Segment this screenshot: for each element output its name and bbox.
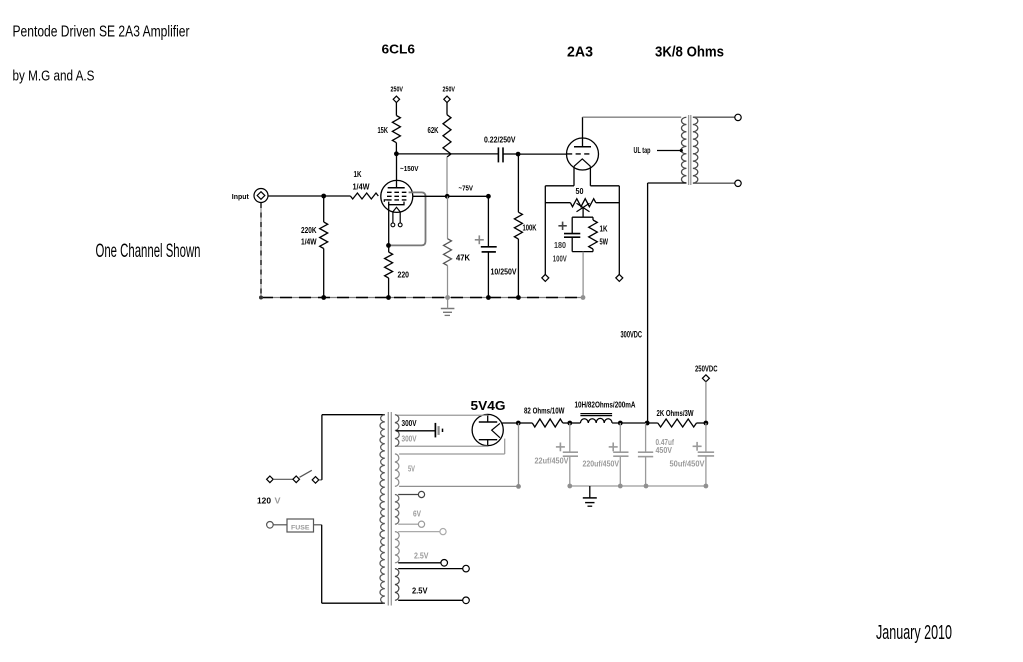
svg-text:10/250V: 10/250V xyxy=(491,267,517,277)
resistor 1K 1/4W grid stopper xyxy=(350,193,378,199)
node rail at bypass cap xyxy=(486,295,491,300)
resistor 62K screen dropper xyxy=(446,103,448,115)
node plate of 6CL6 xyxy=(394,151,399,156)
node bus 0.47uf xyxy=(644,484,649,489)
6CL6 grid g1 xyxy=(387,199,409,201)
svg-text:1/4W: 1/4W xyxy=(301,237,317,247)
capacitor 22uf/450V xyxy=(569,423,571,452)
polarity plus of 180 xyxy=(558,225,566,227)
node screen grid xyxy=(445,194,450,199)
resistor 1K 5W bias xyxy=(589,220,598,249)
wire secondary top lead xyxy=(693,116,735,118)
polarity plus of 50uf xyxy=(693,445,702,447)
node B+ takeoff xyxy=(645,421,650,426)
capacitor 180/100V bypass xyxy=(571,217,573,233)
wire 5V winding to filament xyxy=(399,453,505,455)
node coupling cap output xyxy=(516,152,521,157)
svg-text:100V: 100V xyxy=(553,253,567,263)
svg-text:Input: Input xyxy=(232,192,249,201)
node grid top of 220K xyxy=(321,194,326,199)
svg-text:5V4G: 5V4G xyxy=(471,398,506,413)
svg-text:6CL6: 6CL6 xyxy=(382,41,416,56)
svg-text:V: V xyxy=(275,496,281,506)
svg-text:220K: 220K xyxy=(301,225,317,235)
terminal 250VDC output xyxy=(702,375,709,382)
node rail at 47K xyxy=(445,295,450,300)
polarity plus of 22uf xyxy=(556,446,565,448)
node rectifier output xyxy=(516,421,521,426)
node rail at 220K xyxy=(321,295,326,300)
T2 core xyxy=(688,115,690,185)
wire plate node to coupling cap xyxy=(396,153,498,155)
node bus 220uf xyxy=(618,484,623,489)
capacitor 50uf/450V xyxy=(705,423,707,452)
2.5V-1 bottom lead xyxy=(398,562,441,564)
fuse F1 xyxy=(267,522,274,529)
6CL6 heater filament xyxy=(393,207,401,212)
svg-text:47K: 47K xyxy=(456,253,471,263)
svg-text:5W: 5W xyxy=(600,237,609,247)
terminal filament supply left xyxy=(542,274,549,281)
wire mains neutral to primary bottom xyxy=(321,525,323,603)
HV center tap ground xyxy=(396,430,435,432)
2A3 grid xyxy=(567,153,591,155)
wire rectifier output xyxy=(501,422,518,424)
resistor 220 cathode xyxy=(385,252,393,278)
wire cathode drop xyxy=(388,205,390,252)
svg-text:0.22/250V: 0.22/250V xyxy=(484,135,516,145)
6CL6 heater pin 2 xyxy=(398,223,402,227)
T1 2.5V winding 2 xyxy=(395,569,399,601)
5V4G filament xyxy=(492,423,500,437)
6V bottom lead xyxy=(398,523,418,525)
6CL6 heater pin 1 xyxy=(391,223,395,227)
svg-text:One Channel Shown: One Channel Shown xyxy=(96,240,201,262)
node 250VDC output xyxy=(704,421,709,426)
2.5V-2 top lead xyxy=(398,568,463,570)
input jack J1 xyxy=(254,189,268,203)
ground symbol amplifier xyxy=(441,308,455,310)
wire to 2A3 grid xyxy=(518,153,567,155)
svg-text:2K Ohms/3W: 2K Ohms/3W xyxy=(657,408,695,418)
6CL6 grid g2 xyxy=(387,195,409,197)
svg-text:250VDC: 250VDC xyxy=(695,363,718,373)
T1 2.5V winding 1 xyxy=(395,532,399,563)
svg-text:300VDC: 300VDC xyxy=(621,330,643,341)
node bus 22uf xyxy=(567,484,572,489)
2A3 plate xyxy=(582,117,584,147)
svg-text:22uf/450V: 22uf/450V xyxy=(535,456,569,466)
capacitor 220uf/450V xyxy=(619,423,621,452)
resistor 100K grid leak xyxy=(517,154,519,212)
wire filament to hum pot right xyxy=(590,185,619,187)
svg-text:Pentode Driven SE 2A3 Amplifie: Pentode Driven SE 2A3 Amplifier xyxy=(13,24,190,41)
UL tap wire xyxy=(657,150,682,152)
svg-text:250V: 250V xyxy=(443,85,456,94)
svg-text:2.5V: 2.5V xyxy=(412,586,428,596)
node rail at input xyxy=(259,296,263,300)
wire B+ return to 5V winding xyxy=(518,423,520,486)
svg-text:1K: 1K xyxy=(600,224,609,234)
6CL6 cathode xyxy=(389,202,404,205)
2.5V-2 bottom lead xyxy=(398,599,463,601)
svg-text:1/4W: 1/4W xyxy=(353,182,371,192)
svg-text:220: 220 xyxy=(398,270,410,280)
resistor 82 Ohms/10W xyxy=(518,422,532,424)
terminal filament supply right xyxy=(616,274,623,281)
svg-text:450V: 450V xyxy=(656,445,673,455)
svg-text:by M.G and A.S: by M.G and A.S xyxy=(13,69,95,85)
wire 250VDC to filter output xyxy=(705,382,707,423)
wire secondary bottom lead xyxy=(693,182,735,184)
svg-text:6V: 6V xyxy=(413,508,421,518)
svg-text:220uf/450V: 220uf/450V xyxy=(583,459,620,469)
node rail at 100K xyxy=(516,295,521,300)
ground rail of amplifier stage xyxy=(261,297,583,299)
wire 2A3 plate to OPT primary xyxy=(583,116,682,118)
node screen bypass top xyxy=(486,194,491,199)
5V4G top plate xyxy=(487,414,489,422)
svg-text:50: 50 xyxy=(576,186,584,196)
resistor 15K plate load xyxy=(395,103,397,116)
terminal 250V plate supply xyxy=(393,96,399,102)
svg-text:5V: 5V xyxy=(408,463,415,473)
svg-text:50uf/450V: 50uf/450V xyxy=(670,459,705,469)
choke 10H/82Ohms/200mA xyxy=(580,418,612,423)
terminal 250V screen supply xyxy=(444,96,450,102)
5V4G bottom plate xyxy=(479,439,497,441)
terminal speaker plus xyxy=(735,114,741,120)
polarity plus of 10/250V xyxy=(475,239,484,241)
wire cathode network to ground rail xyxy=(582,252,584,297)
svg-text:100K: 100K xyxy=(523,223,538,233)
svg-text:62K: 62K xyxy=(428,125,440,135)
tube 2A3 V2 envelope xyxy=(567,138,599,170)
terminal speaker minus xyxy=(735,180,741,186)
svg-text:UL tap: UL tap xyxy=(634,145,651,155)
potentiometer 50 hum balance xyxy=(545,202,570,204)
capacitor 0.22/250V coupling xyxy=(497,147,499,162)
svg-text:1K: 1K xyxy=(354,169,363,179)
wire input to grid resistor xyxy=(268,195,350,197)
node 5V winding return xyxy=(516,484,521,489)
svg-text:82 Ohms/10W: 82 Ohms/10W xyxy=(524,406,565,416)
wire input shield drop xyxy=(260,203,262,298)
wire node to choke xyxy=(570,422,581,424)
wire filament to hum pot left xyxy=(545,185,574,187)
svg-text:15K: 15K xyxy=(378,125,389,135)
T1 6V winding xyxy=(395,495,399,525)
resistor 2K Ohms/3W xyxy=(658,419,697,427)
transformer T1 primary winding xyxy=(380,415,385,604)
node rail at 220 xyxy=(386,295,391,300)
node cathode junction xyxy=(386,243,391,248)
svg-text:120: 120 xyxy=(257,496,271,506)
polarity plus of 220uf xyxy=(609,446,618,448)
switch SW1 mains xyxy=(267,476,274,483)
resistor 220K 1/4W xyxy=(323,196,325,222)
svg-text:250V: 250V xyxy=(391,85,404,94)
svg-text:2A3: 2A3 xyxy=(567,44,593,60)
tube 6CL6 V1 envelope xyxy=(381,180,413,212)
wire mains hot to primary top xyxy=(321,415,323,480)
wire HV top to rectifier xyxy=(396,414,487,416)
svg-text:300V: 300V xyxy=(402,418,417,428)
T1 HV secondary 300-0-300 xyxy=(395,415,399,447)
svg-text:3K/8 Ohms: 3K/8 Ohms xyxy=(655,44,724,60)
node second filter cap xyxy=(618,421,623,426)
node first filter cap xyxy=(567,421,572,426)
T1 core xyxy=(387,412,389,606)
wire OPT primary bottom to B+ xyxy=(648,182,687,184)
2A3 filament xyxy=(574,159,590,166)
resistor 47K screen bleed xyxy=(447,196,449,238)
svg-text:FUSE: FUSE xyxy=(291,525,310,532)
wire HV bottom to rectifier xyxy=(396,445,487,447)
svg-text:180: 180 xyxy=(554,240,566,250)
svg-text:2.5V: 2.5V xyxy=(414,551,429,561)
filter ground bus xyxy=(570,485,706,487)
svg-text:10H/82Ohms/200mA: 10H/82Ohms/200mA xyxy=(575,400,636,410)
tube 5V4G V3 envelope xyxy=(472,414,503,445)
ground symbol power supply xyxy=(589,486,591,498)
svg-text:300V: 300V xyxy=(402,433,417,443)
svg-text:~150V: ~150V xyxy=(400,164,419,173)
wire screen row xyxy=(413,195,489,197)
T1 5V rectifier winding xyxy=(395,454,399,487)
capacitor 0.47uf/450V xyxy=(645,423,647,452)
2A3 filament legs xyxy=(573,166,575,186)
capacitor 10/250V screen bypass xyxy=(487,196,489,246)
node rail at 2A3 cathode xyxy=(581,295,586,300)
parallel RC cathode network frame xyxy=(572,216,593,218)
2.5V-1 top lead xyxy=(398,531,440,533)
6V top lead xyxy=(398,494,418,496)
node bus 50uf xyxy=(704,484,709,489)
wire g3 to cathode return xyxy=(390,192,426,245)
transformer T2 output primary xyxy=(681,117,686,183)
pot wiper arrow xyxy=(577,203,590,212)
svg-text:January 2010: January 2010 xyxy=(876,622,952,644)
6CL6 grid g3 xyxy=(387,191,409,193)
transformer T2 secondary xyxy=(693,117,698,183)
svg-text:~75V: ~75V xyxy=(459,184,474,193)
6CL6 plate xyxy=(396,154,398,188)
